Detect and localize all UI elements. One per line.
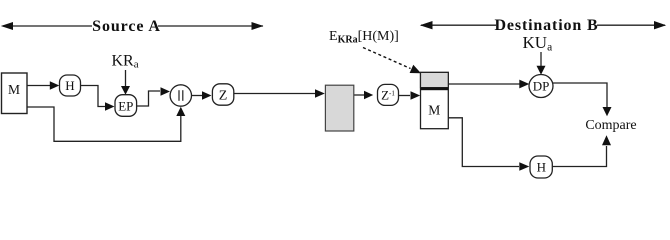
svg-text:Destination B: Destination B	[495, 17, 599, 34]
svg-text:M: M	[428, 103, 440, 118]
svg-text:M: M	[8, 82, 20, 97]
svg-text:DP: DP	[533, 79, 550, 94]
svg-text:Source A: Source A	[92, 18, 161, 35]
svg-text:Z: Z	[219, 88, 228, 103]
svg-text:H: H	[537, 160, 546, 175]
svg-text:EP: EP	[118, 98, 133, 113]
svg-text:Compare: Compare	[585, 118, 636, 133]
svg-text:H: H	[65, 78, 74, 93]
